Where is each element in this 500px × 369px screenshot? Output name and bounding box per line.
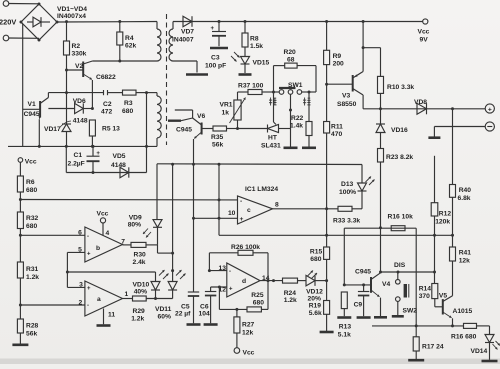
svg-text:2: 2 [78,299,82,306]
svg-text:80%: 80% [128,222,141,229]
svg-text:V3: V3 [342,93,350,100]
svg-text:R28: R28 [26,323,39,330]
svg-text:VR1: VR1 [220,102,233,109]
svg-text:VD10: VD10 [133,282,150,289]
svg-text:V6: V6 [197,113,205,120]
svg-text:20%: 20% [308,296,321,303]
svg-text:SL431: SL431 [261,143,281,150]
svg-text:104: 104 [199,311,210,318]
svg-text:C3: C3 [211,55,220,62]
svg-text:R2: R2 [72,43,81,50]
svg-text:a: a [97,296,101,303]
svg-text:1.2k: 1.2k [26,274,39,281]
svg-text:C945: C945 [355,269,371,276]
svg-text:d: d [242,278,246,285]
svg-text:C5: C5 [181,304,190,311]
svg-text:680: 680 [26,187,37,194]
svg-text:R11: R11 [331,124,343,131]
svg-text:R32: R32 [26,215,39,222]
svg-text:2.2µF: 2.2µF [68,161,85,168]
svg-text:VD14: VD14 [471,348,488,355]
svg-text:R3: R3 [124,100,133,107]
svg-text:680: 680 [253,300,264,307]
svg-text:4148: 4148 [73,118,88,125]
svg-text:R6: R6 [26,179,35,186]
svg-text:R35: R35 [211,134,224,141]
svg-text:VD8: VD8 [414,99,427,106]
svg-text:R31: R31 [26,266,39,273]
svg-text:470: 470 [331,131,342,138]
svg-text:R30: R30 [134,252,147,259]
svg-text:6: 6 [78,230,82,237]
svg-text:R15: R15 [310,249,323,256]
svg-text:4: 4 [106,230,110,237]
svg-text:VD12: VD12 [306,289,323,296]
svg-text:R27: R27 [242,322,255,329]
svg-text:7: 7 [121,238,125,245]
svg-text:C9: C9 [354,302,363,309]
svg-text:200: 200 [333,61,344,68]
svg-text:R9: R9 [333,53,342,60]
svg-text:-: - [87,234,89,240]
svg-text:10: 10 [228,210,236,217]
svg-text:R26 100k: R26 100k [231,244,260,251]
svg-text:R23 8.2k: R23 8.2k [386,154,413,161]
svg-text:V4: V4 [382,281,390,288]
svg-text:R24: R24 [284,290,297,297]
svg-text:IC1 LM324: IC1 LM324 [245,186,278,193]
svg-text:VD16: VD16 [391,127,408,134]
svg-text:100%: 100% [339,189,356,196]
svg-text:C1: C1 [74,152,83,159]
svg-text:VD6: VD6 [73,98,86,105]
svg-text:R17 24: R17 24 [422,344,444,351]
svg-text:680: 680 [310,256,321,263]
svg-text:C6822: C6822 [96,74,116,81]
svg-text:-: - [229,269,231,275]
svg-text:100 pF: 100 pF [205,63,226,70]
svg-text:C2: C2 [103,101,112,108]
svg-text:R8: R8 [250,36,259,43]
svg-text:-: - [87,303,89,309]
svg-text:VD15: VD15 [253,60,270,67]
svg-text:R5 13: R5 13 [102,126,120,133]
svg-text:1.4k: 1.4k [290,123,303,130]
svg-text:SW1: SW1 [288,82,303,89]
svg-text:IN4007x4: IN4007x4 [57,13,86,20]
svg-text:11: 11 [108,312,115,319]
svg-text:VD1~VD4: VD1~VD4 [57,6,87,13]
svg-text:R14: R14 [419,286,432,293]
svg-text:R22: R22 [291,115,304,122]
svg-text:C945: C945 [176,127,192,134]
svg-text:Vcc: Vcc [25,159,37,166]
svg-text:V5: V5 [439,293,447,300]
svg-text:HT: HT [268,135,278,142]
svg-text:+: + [488,106,492,113]
svg-text:680: 680 [26,223,37,230]
svg-text:4148: 4148 [111,162,126,169]
svg-text:VD11: VD11 [155,306,172,313]
svg-text:22 µf: 22 µf [175,311,191,318]
svg-text:SW2: SW2 [403,308,418,315]
svg-text:D13: D13 [341,181,354,188]
svg-text:1.2k: 1.2k [131,316,144,323]
svg-text:C945: C945 [24,111,40,118]
svg-text:R16 10k: R16 10k [388,214,414,221]
svg-text:R29: R29 [133,308,146,315]
svg-text:370: 370 [419,293,430,300]
svg-text:2.4k: 2.4k [133,259,146,266]
svg-text:62k: 62k [125,43,136,50]
svg-text:5.6k: 5.6k [309,310,322,317]
svg-text:68: 68 [287,57,295,64]
svg-text:1.5k: 1.5k [250,43,263,50]
svg-text:VD9: VD9 [129,215,142,222]
svg-text:40%: 40% [134,289,147,296]
svg-text:120k: 120k [435,219,450,226]
svg-text:IN4007: IN4007 [172,37,194,44]
svg-text:+: + [240,216,244,223]
svg-text:VD7: VD7 [181,29,194,36]
svg-text:12k: 12k [242,329,253,336]
svg-text:330k: 330k [72,51,87,58]
svg-text:R19: R19 [309,303,322,310]
svg-text:R33 3.3k: R33 3.3k [333,218,360,225]
svg-text:Vcc: Vcc [418,29,430,36]
svg-text:R40: R40 [459,187,472,194]
svg-text:56k: 56k [26,331,37,338]
svg-text:5: 5 [78,246,82,253]
svg-text:-: - [240,198,242,205]
svg-text:472: 472 [101,109,112,116]
svg-text:A1015: A1015 [453,308,473,315]
svg-text:+: + [96,151,100,157]
svg-text:Vcc: Vcc [97,210,109,217]
svg-text:c: c [247,207,251,214]
svg-text:+: + [87,252,91,258]
svg-text:R16 680: R16 680 [451,333,477,340]
svg-text:6.8k: 6.8k [458,195,471,202]
svg-text:VD17: VD17 [44,126,61,133]
svg-text:5.1k: 5.1k [338,332,351,339]
svg-text:+: + [87,286,91,292]
svg-text:V1: V1 [28,101,36,108]
svg-text:V2: V2 [75,63,83,70]
svg-text:R13: R13 [339,324,352,331]
svg-text:680: 680 [122,108,133,115]
svg-text:Vcc: Vcc [243,350,255,357]
svg-text:b: b [96,245,100,252]
svg-text:R37 100: R37 100 [238,83,264,90]
svg-text:R25: R25 [251,292,264,299]
svg-text:R10 3.3k: R10 3.3k [387,84,414,91]
svg-text:12k: 12k [459,258,470,265]
svg-text:+: + [229,287,233,293]
svg-text:S8550: S8550 [337,101,357,108]
svg-text:8: 8 [275,202,279,209]
svg-text:C6: C6 [200,304,209,311]
svg-text:+: + [211,26,215,32]
svg-text:R12: R12 [439,211,452,218]
svg-text:R41: R41 [459,250,472,257]
svg-text:13: 13 [219,265,227,272]
svg-text:9V: 9V [420,37,429,44]
svg-text:56k: 56k [212,142,223,149]
svg-text:1k: 1k [222,110,230,117]
svg-text:R20: R20 [284,49,297,56]
svg-text:R4: R4 [125,35,134,42]
svg-text:1: 1 [125,291,129,298]
svg-text:DIS: DIS [394,262,406,269]
svg-text:3: 3 [79,281,83,288]
svg-text:1.2k: 1.2k [284,297,297,304]
svg-text:60%: 60% [158,314,171,321]
svg-text:VD5: VD5 [113,153,126,160]
svg-text:220V: 220V [0,18,16,27]
